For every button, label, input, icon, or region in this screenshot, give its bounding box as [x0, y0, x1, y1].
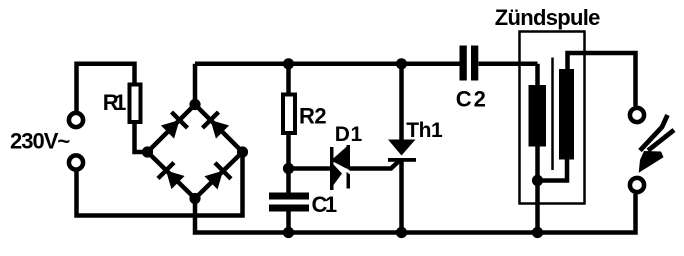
svg-text:230V~: 230V~: [10, 129, 70, 154]
svg-text:Th1: Th1: [406, 119, 443, 142]
svg-text:C1: C1: [312, 192, 337, 217]
svg-text:C2: C2: [456, 86, 488, 111]
svg-text:Zündspule: Zündspule: [495, 5, 600, 30]
svg-text:R2: R2: [299, 104, 326, 129]
svg-text:D1: D1: [335, 123, 363, 146]
